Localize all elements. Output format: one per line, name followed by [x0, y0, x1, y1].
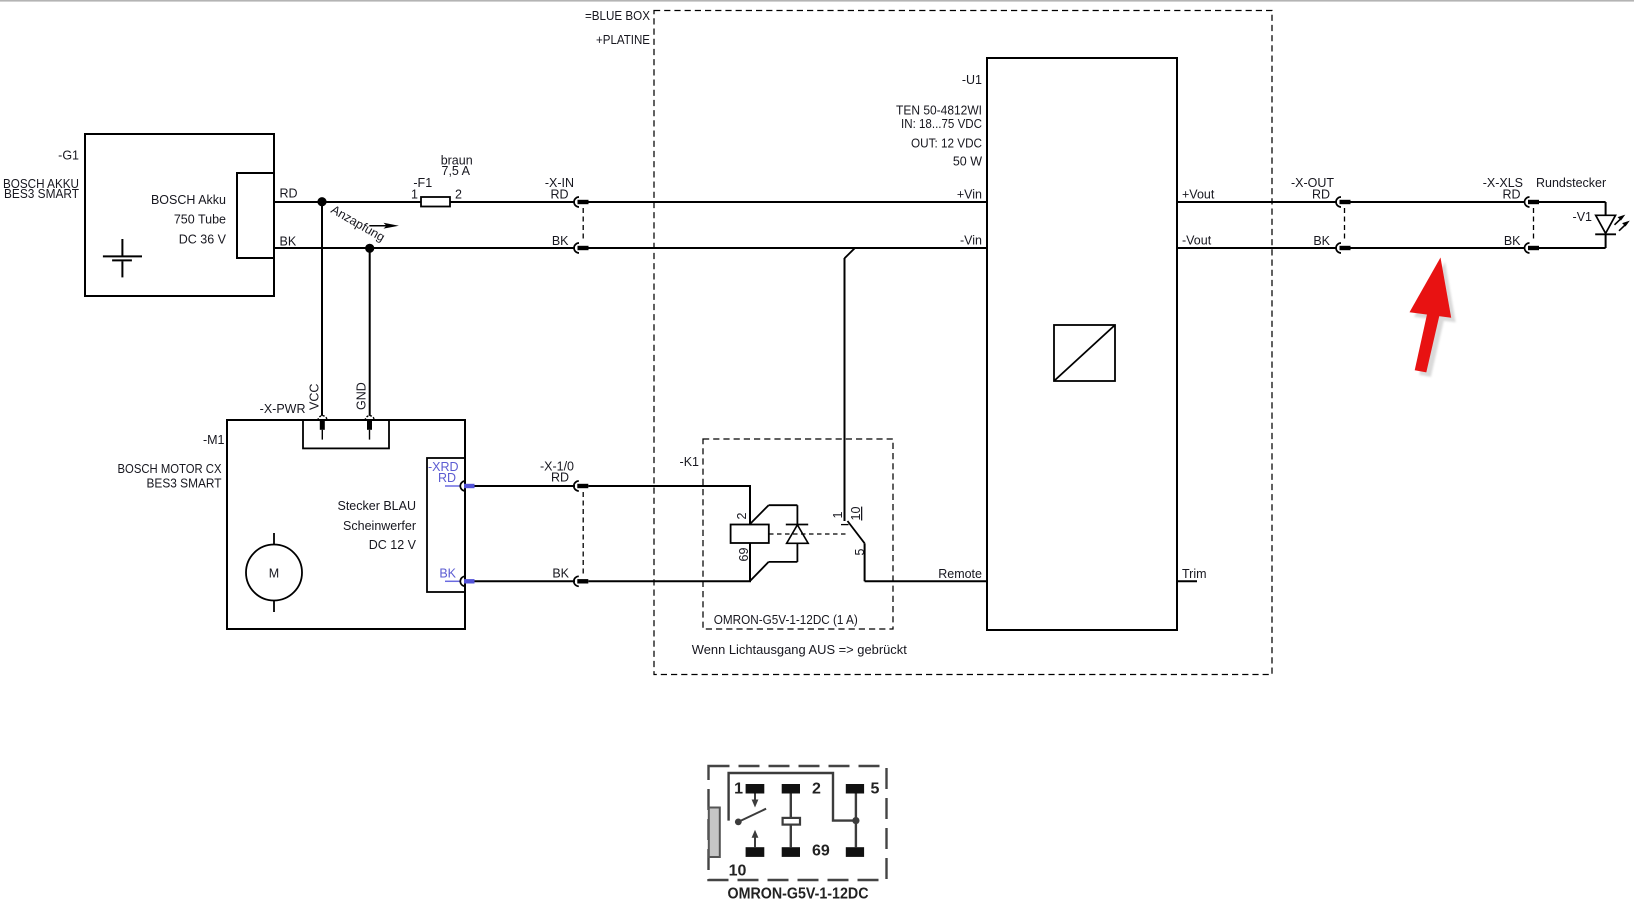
footprint pin 2 pad	[782, 784, 800, 794]
svg-text:OMRON-G5V-1-12DC (1 A): OMRON-G5V-1-12DC (1 A)	[714, 613, 858, 627]
svg-text:Wenn Lichtausgang AUS => gebrü: Wenn Lichtausgang AUS => gebrückt	[692, 643, 908, 657]
LED light arrow 1	[1615, 215, 1626, 225]
X-IN dashed link	[582, 208, 584, 242]
coil envelope top edge	[769, 504, 798, 506]
svg-text:Scheinwerfer: Scheinwerfer	[343, 519, 416, 533]
svg-text:-Vin: -Vin	[960, 234, 982, 248]
LED V1 vertical lead bottom	[1605, 234, 1607, 248]
svg-text:69: 69	[812, 843, 830, 860]
footprint pin10 stub with up arrow	[752, 830, 759, 847]
svg-text:+Vout: +Vout	[1182, 188, 1215, 202]
footprint pin 5 trace	[855, 794, 857, 848]
U1 internal square symbol	[1054, 325, 1115, 381]
svg-text:750 Tube: 750 Tube	[174, 213, 226, 227]
wire RD X-IN to U1 +Vin	[588, 201, 987, 203]
connector X-XLS pin BK	[1525, 243, 1540, 253]
svg-text:BK: BK	[552, 234, 569, 248]
converter U1 box	[987, 58, 1177, 630]
svg-text:1: 1	[411, 188, 418, 202]
BLUE BOX dashed frame	[654, 11, 1272, 675]
svg-text:Trim: Trim	[1182, 567, 1207, 581]
connector X-1/0 pin RD	[574, 481, 589, 491]
svg-text:69: 69	[737, 548, 751, 562]
wire -Vin branch diagonal	[845, 248, 855, 258]
contact pin 5 drop	[864, 543, 866, 581]
svg-text:1: 1	[734, 781, 743, 798]
X-PWR pin VCC	[318, 416, 327, 440]
X-XLS dashed link	[1533, 208, 1535, 242]
junction node RD/VCC	[317, 197, 326, 206]
svg-text:DC 36 V: DC 36 V	[179, 233, 227, 247]
LED V1 cathode bar	[1595, 233, 1616, 235]
coil envelope bottom edge	[769, 561, 798, 563]
contact pin 1 tick	[841, 524, 849, 526]
svg-text:Stecker BLAU: Stecker BLAU	[337, 499, 416, 513]
footprint pin 10 pad	[746, 847, 765, 857]
svg-text:-G1: -G1	[58, 149, 79, 163]
screenshot top edge strip	[0, 0, 1634, 2]
footprint coil trace	[790, 794, 792, 848]
svg-text:RD: RD	[438, 471, 456, 485]
svg-text:GND: GND	[355, 382, 369, 410]
svg-text:50 W: 50 W	[953, 155, 982, 169]
X-PWR pin GND	[365, 416, 374, 440]
wire BK X-OUT to X-XLS	[1350, 247, 1525, 249]
motor stub bottom	[273, 601, 275, 613]
footprint coil bar gray	[709, 808, 720, 858]
svg-text:Remote: Remote	[938, 567, 982, 581]
svg-text:2: 2	[812, 781, 821, 798]
junction node BK/GND	[365, 244, 374, 253]
contact blade	[848, 521, 865, 543]
connector X-OUT pin BK	[1336, 243, 1351, 253]
LED V1 triangle	[1596, 215, 1616, 233]
svg-text:IN: 18...75 VDC: IN: 18...75 VDC	[901, 117, 982, 131]
diode triangle	[787, 525, 809, 544]
Anzapfung arrow	[369, 225, 390, 227]
svg-text:+PLATINE: +PLATINE	[596, 33, 650, 47]
svg-text:BK: BK	[552, 566, 569, 580]
LED V1 vertical lead top	[1605, 202, 1607, 215]
svg-text:+Vin: +Vin	[957, 188, 982, 202]
battery symbol	[103, 239, 142, 277]
svg-text:BK: BK	[1313, 234, 1330, 248]
relay K1 dashed box	[703, 439, 893, 629]
XRD pin BK	[445, 576, 475, 586]
wire RD fuse to X-IN	[450, 201, 575, 203]
svg-text:DC 12 V: DC 12 V	[369, 538, 417, 552]
svg-text:BOSCH MOTOR CX: BOSCH MOTOR CX	[118, 462, 223, 476]
X-OUT dashed link	[1344, 208, 1346, 242]
motor circle	[246, 545, 302, 601]
wire RD X-XLS to LED corner	[1538, 201, 1606, 203]
svg-text:Rundstecker: Rundstecker	[1536, 176, 1606, 190]
svg-text:-V1: -V1	[1573, 210, 1593, 224]
svg-text:TEN 50-4812WI: TEN 50-4812WI	[896, 104, 982, 118]
coil envelope top diagonal	[751, 505, 769, 523]
footprint pin right-bottom pad	[846, 847, 864, 857]
battery G1 outline	[85, 134, 274, 296]
fuse F1	[421, 197, 450, 207]
svg-text:OUT: 12 VDC: OUT: 12 VDC	[911, 137, 982, 151]
svg-text:RD: RD	[1502, 188, 1520, 202]
svg-text:RD: RD	[550, 188, 568, 202]
wire Remote	[865, 580, 987, 582]
footprint blade with pivot dot	[735, 809, 766, 826]
svg-text:-X-PWR: -X-PWR	[260, 402, 306, 416]
connector X-1/0 pin BK	[574, 576, 589, 586]
coil envelope bottom diagonal	[751, 562, 769, 581]
svg-text:2: 2	[735, 513, 749, 520]
wire +Vout U1 to X-OUT	[1177, 201, 1337, 203]
svg-text:OMRON-G5V-1-12DC: OMRON-G5V-1-12DC	[728, 886, 869, 903]
svg-text:BK: BK	[1504, 234, 1521, 248]
wire BK battery to X-IN	[274, 247, 575, 249]
battery G1 connector block	[237, 173, 274, 258]
wire VCC drop	[321, 202, 323, 416]
wire RD X-1/0 to relay coil	[588, 486, 750, 525]
svg-text:-Vout: -Vout	[1182, 234, 1212, 248]
svg-text:BK: BK	[439, 566, 456, 580]
LED light arrow 2	[1619, 221, 1630, 231]
svg-text:-U1: -U1	[962, 73, 982, 87]
wire RD X-OUT to X-XLS	[1350, 201, 1525, 203]
connector X-OUT pin RD	[1336, 197, 1351, 207]
svg-text:-M1: -M1	[203, 433, 225, 447]
diode cathode bar	[786, 524, 808, 526]
X-1/0 dashed link	[582, 492, 584, 576]
svg-text:10: 10	[849, 507, 863, 521]
connector X-PWR block	[303, 420, 389, 448]
svg-text:2: 2	[455, 188, 462, 202]
footprint pin1 stub with down arrow	[752, 794, 759, 808]
footprint dashed outline	[709, 766, 887, 880]
connector X-IN pin BK	[574, 243, 589, 253]
relay coil K1	[731, 525, 769, 544]
svg-text:BK: BK	[280, 234, 297, 248]
footprint common trace	[729, 773, 856, 821]
svg-text:BES3 SMART: BES3 SMART	[147, 477, 222, 491]
connector X-XLS pin RD	[1525, 197, 1540, 207]
svg-text:-K1: -K1	[680, 455, 700, 469]
svg-text:RD: RD	[1312, 188, 1330, 202]
wire -Vin drop to contact	[844, 258, 846, 521]
svg-text:10: 10	[729, 863, 747, 880]
svg-text:BOSCH Akku: BOSCH Akku	[151, 193, 226, 207]
footprint junction dot	[852, 817, 859, 824]
red arrow	[1410, 258, 1452, 373]
svg-text:M: M	[269, 567, 279, 581]
wire -Vout U1 to X-OUT	[1177, 247, 1337, 249]
svg-text:=BLUE BOX: =BLUE BOX	[585, 9, 651, 23]
U1 symbol diagonal	[1054, 325, 1115, 381]
svg-text:RD: RD	[551, 471, 569, 485]
svg-text:RD: RD	[280, 187, 298, 201]
wire BK X-IN to U1 -Vin	[588, 247, 987, 249]
wire RD battery to fuse	[274, 201, 421, 203]
wire coil to BK X-1/0	[588, 543, 750, 581]
red arrow shadow	[1414, 262, 1456, 377]
XRD pin RD	[445, 481, 475, 491]
motor M1 box	[227, 420, 465, 629]
svg-text:1: 1	[831, 512, 845, 519]
wire BK XRD to X-1/0	[475, 580, 576, 582]
diode top lead	[796, 505, 798, 524]
svg-text:5: 5	[871, 781, 880, 798]
svg-text:7,5 A: 7,5 A	[442, 164, 471, 178]
mechanical link dashed	[769, 533, 849, 535]
Trim stub wire	[1177, 580, 1197, 582]
svg-text:VCC: VCC	[307, 384, 321, 410]
footprint coil body	[783, 818, 800, 825]
wire GND drop	[369, 248, 371, 416]
wire RD XRD to X-1/0	[475, 485, 576, 487]
diode bottom lead	[796, 543, 798, 562]
connector XRD box	[427, 458, 465, 592]
footprint pin 1 pad	[746, 784, 765, 794]
svg-text:BES3 SMART: BES3 SMART	[4, 187, 79, 201]
motor stub top	[273, 533, 275, 545]
connector X-IN pin RD	[574, 197, 589, 207]
wire BK X-XLS to LED corner	[1538, 247, 1606, 249]
footprint pin 5 pad	[846, 784, 864, 794]
footprint pin 69 pad	[782, 847, 800, 857]
